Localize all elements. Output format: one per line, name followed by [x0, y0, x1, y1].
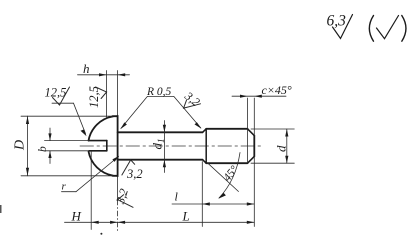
end face extension lower — [253, 156, 255, 226]
roughness 3,2 below shank symbol — [122, 160, 135, 175]
dimension H arrow left — [91, 221, 99, 224]
radius R 0,5 leader — [121, 96, 201, 128]
dimension b arrow upper — [48, 133, 51, 140]
step chamfer top — [203, 129, 207, 133]
r leader shoulder — [62, 191, 77, 193]
dimension c arrow right — [254, 95, 261, 98]
roughness 12,5 shoulder — [52, 102, 74, 104]
step chamfer bottom — [203, 160, 207, 164]
stray dot — [100, 233, 102, 235]
dimension c x 45 line — [232, 95, 286, 97]
head dome arc upper — [89, 116, 114, 140]
head face — [117, 116, 119, 177]
45 degree arc arrow — [218, 193, 226, 199]
dimension H extension left — [90, 151, 92, 230]
head dome arc lower — [89, 151, 114, 175]
dimension D extension top — [21, 115, 113, 117]
dimension H arrow right — [110, 221, 118, 224]
svg-text:h: h — [83, 61, 90, 76]
end face — [253, 136, 255, 157]
dimension h extension right — [117, 71, 119, 116]
r leader — [76, 157, 119, 192]
dimension b line lower — [49, 151, 51, 164]
roughness 3,2 on face extension symbol — [118, 195, 133, 208]
dimension D arrow down — [26, 168, 29, 176]
dimension L arrow right — [247, 221, 255, 224]
dimension D extension bottom — [21, 175, 113, 177]
dimension d arrow down — [285, 156, 288, 164]
radius R 0,5 arrow left — [120, 122, 127, 129]
dimension h arrow right — [118, 73, 126, 76]
centerline — [80, 145, 262, 147]
step edge — [205, 129, 207, 163]
shank bottom — [118, 159, 203, 161]
dimension b line upper — [49, 128, 51, 141]
dimension d1 arrow lower — [163, 160, 166, 168]
svg-text:H: H — [71, 209, 82, 224]
dimension d extension top — [251, 128, 294, 130]
svg-text:L: L — [182, 209, 190, 224]
end chamfer bottom — [248, 156, 255, 163]
left edge mark — [0, 205, 2, 213]
dimension L arrow left — [118, 221, 126, 224]
svg-text:r: r — [62, 181, 67, 193]
roughness 12,5 leader — [74, 103, 86, 133]
dimension c extension left — [247, 98, 249, 163]
svg-text:c×45°: c×45° — [262, 83, 292, 97]
svg-text:d: d — [274, 145, 289, 152]
dimension d arrow up — [285, 129, 288, 137]
label d1 — [150, 139, 167, 150]
surface note paren left — [369, 16, 373, 42]
surface note paren right — [402, 16, 406, 42]
slot bottom edge — [89, 150, 107, 152]
svg-text:1: 1 — [156, 139, 166, 144]
r leader arrow — [112, 156, 119, 162]
dimension b extension bottom — [45, 150, 90, 152]
dimension c extension right — [253, 98, 255, 136]
dimension b extension top — [45, 140, 90, 142]
dimension l extension left — [201, 162, 203, 227]
roughness 3,2 on slant symbol — [184, 100, 201, 108]
slot bottom wall — [106, 141, 108, 151]
surface note check in parens — [377, 16, 399, 39]
slot top edge — [89, 140, 107, 142]
end block top — [206, 128, 247, 130]
dimension H L shared line — [65, 221, 255, 223]
dimension D arrow up — [26, 116, 29, 124]
head top edge — [113, 115, 118, 117]
dimension d line — [286, 129, 288, 163]
end block bottom — [206, 162, 247, 164]
end chamfer top — [248, 129, 255, 136]
45 degree arc — [219, 153, 240, 199]
dimension h arrow left — [99, 73, 107, 76]
svg-text:3,2: 3,2 — [126, 167, 143, 181]
dimension D line — [27, 116, 29, 176]
svg-text:b: b — [37, 146, 49, 152]
dimension h line — [78, 74, 130, 76]
dimension h extension left — [106, 71, 108, 118]
surface note 6,3 check — [333, 15, 353, 39]
dimension l line — [172, 203, 254, 205]
svg-text:6,3: 6,3 — [327, 13, 347, 30]
roughness 12,5 rotated check symbol — [96, 87, 107, 99]
dimension l arrow left — [202, 202, 210, 205]
face extension solid — [117, 176, 119, 200]
45 degree chamfer line — [208, 163, 239, 191]
dimension d extension bottom — [251, 162, 294, 164]
roughness 12,5 leader arrow — [81, 129, 87, 136]
dimension b arrow lower — [48, 151, 51, 158]
svg-text:12,5: 12,5 — [45, 86, 67, 100]
dimension l arrow right — [247, 202, 255, 205]
roughness 12,5 check symbol — [53, 87, 70, 105]
dimension d1 line — [163, 121, 165, 173]
face extension dashed — [117, 200, 119, 231]
svg-text:12,5: 12,5 — [87, 86, 101, 108]
radius R 0,5 arrow right — [195, 122, 202, 129]
dimension c arrow left — [240, 95, 248, 98]
dimension d1 arrow upper — [163, 125, 166, 133]
head bottom edge — [113, 175, 118, 177]
svg-text:D: D — [13, 140, 28, 151]
shank top — [118, 131, 203, 133]
